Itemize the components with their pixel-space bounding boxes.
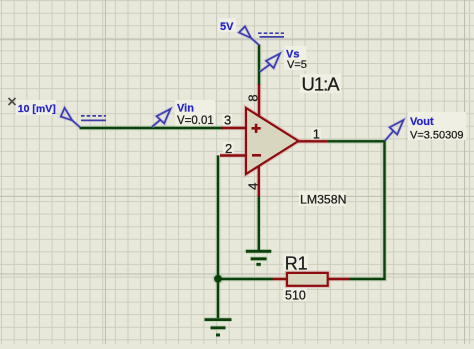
svg-text:Vin: Vin (177, 103, 194, 115)
svg-text:8: 8 (246, 94, 261, 101)
svg-text:R1: R1 (285, 254, 308, 274)
svg-text:U1:A: U1:A (302, 74, 341, 95)
svg-text:LM358N: LM358N (300, 193, 346, 207)
svg-text:Vout: Vout (410, 116, 434, 128)
svg-text:510: 510 (285, 288, 306, 302)
svg-text:10 [mV]: 10 [mV] (18, 103, 56, 115)
svg-text:5V: 5V (220, 21, 234, 33)
svg-text:V=5: V=5 (287, 59, 307, 71)
svg-text:4: 4 (246, 183, 261, 190)
svg-text:V=3.50309: V=3.50309 (410, 129, 464, 141)
svg-text:1: 1 (313, 126, 320, 141)
svg-text:V=0.01: V=0.01 (177, 115, 214, 127)
svg-text:3: 3 (224, 113, 231, 128)
svg-text:2: 2 (225, 141, 232, 156)
